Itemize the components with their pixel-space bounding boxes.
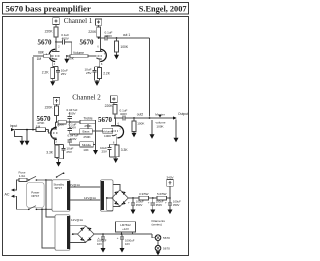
B+ connector box (ch2 stage 2) — [111, 96, 118, 103]
wire T3 secondary bottom to bridge 2 — [70, 241, 86, 243]
svg-text:3.3K: 3.3K — [46, 151, 54, 155]
svg-text:400V: 400V — [120, 112, 128, 116]
diode D3 (BR1 bottom-left) — [114, 201, 117, 205]
svg-text:out2: out2 — [137, 112, 144, 116]
volume pot wire (channel 1) — [67, 55, 95, 57]
ground (R11) — [132, 133, 137, 138]
ground (tone stack) — [93, 150, 98, 155]
potentiometer Volume 50K body — [70, 55, 88, 58]
triode V1a envelope arc — [49, 49, 55, 61]
node filter cap 3 / B+ takeoff — [169, 197, 171, 199]
title bar frame — [3, 3, 189, 15]
node mains to heater transformer (bottom) — [41, 208, 43, 210]
transformer T2 body — [101, 180, 114, 211]
ground (V2a cathode) — [56, 162, 61, 167]
triode V2b envelope arc — [117, 126, 123, 138]
diode D5 (BR2 top-left) — [80, 228, 83, 232]
wire plate to tube V2a — [55, 122, 57, 129]
ground (V1b cathode) — [95, 81, 100, 86]
diode D1 (BR1 top-left) — [114, 191, 117, 195]
ground (C14) — [101, 248, 106, 253]
bridge BR1 DC- stub — [107, 197, 112, 199]
cathode ground bus V2b — [110, 157, 118, 159]
wire coupling from plate node — [56, 41, 62, 43]
transformer T3 body (heater) — [55, 215, 70, 250]
node mains to heater transformer (top) — [45, 179, 47, 181]
wire to coupling cap — [99, 37, 105, 39]
ground (volume pot ch1) — [64, 59, 69, 64]
svg-text:12V@1A: 12V@1A — [68, 183, 80, 187]
svg-text:+: + — [117, 236, 119, 240]
potentiometer Bass 250K body — [80, 129, 92, 134]
fuse F1 — [19, 178, 27, 181]
wire 12V link bottom — [70, 199, 101, 201]
ground (master pot) — [150, 134, 155, 139]
resistor R4 220K (plate load V1b) — [97, 27, 101, 37]
ground (V2b cathode) — [113, 158, 118, 163]
svg-text:5670 bass preamplifier: 5670 bass preamplifier — [6, 3, 91, 13]
switch pole 2 (power) — [29, 206, 52, 210]
capacitor C10 0.1uF 400V (coupling out2) — [123, 116, 125, 121]
wire heater to ground — [157, 250, 159, 252]
svg-text:+: + — [128, 200, 130, 204]
svg-text:12V@1A: 12V@1A — [71, 218, 83, 222]
cathode ground bus V2a — [57, 159, 64, 162]
svg-text:16V: 16V — [97, 242, 102, 246]
resistor R11 100K (mix out2) — [133, 118, 135, 121]
triode V2b grid (dashed) — [112, 130, 118, 132]
wire riser to channel 1 grid — [32, 57, 34, 130]
drawing border frame — [3, 17, 189, 256]
svg-text:25V: 25V — [66, 150, 72, 154]
wire V1b plate up — [100, 38, 102, 52]
triode V2a plate bar — [51, 128, 57, 130]
svg-text:400V: 400V — [62, 37, 70, 41]
svg-text:1M: 1M — [36, 124, 41, 128]
node filter cap 1 — [132, 197, 134, 199]
svg-text:Channel 2: Channel 2 — [72, 94, 101, 102]
capacitor C8 0.047uF 400V (mid) — [70, 139, 80, 145]
wire V1b cathode down — [99, 59, 101, 67]
svg-text:Input: Input — [10, 124, 17, 128]
heater H1 (5670 filament) — [155, 235, 161, 241]
diode D4 (BR1 bottom-right) — [123, 201, 126, 205]
svg-text:2.2K: 2.2K — [103, 71, 111, 75]
regulator U1 7812 box — [116, 222, 136, 232]
bridge BR2 DC- stub — [73, 233, 78, 235]
bridge rectifier BR2 diamond — [78, 226, 95, 242]
B+ connector box (ch2 stage 1) — [53, 98, 60, 105]
wire AC live — [14, 180, 19, 190]
svg-text:350V: 350V — [156, 203, 163, 207]
wire plate V2b to tube — [114, 118, 116, 126]
svg-text:100K: 100K — [156, 125, 164, 129]
svg-text:3.3K: 3.3K — [121, 148, 129, 152]
resistor R12 3.3K 5W (box on rail) — [139, 196, 149, 200]
ground (C12) — [150, 210, 155, 215]
node out2 100K — [133, 117, 135, 119]
triode V2a grid (dashed) — [50, 132, 57, 134]
ground (C15) — [120, 248, 125, 253]
transformer T1 body — [52, 180, 70, 211]
triode V1b envelope arc — [100, 49, 106, 61]
capacitor C11 100uF 350V — [132, 198, 134, 210]
svg-text:Middle: Middle — [82, 143, 91, 147]
wire output to ground — [175, 120, 177, 138]
transformer T1 winding bar — [67, 181, 70, 210]
ground (V1a cathode) — [50, 81, 55, 86]
wire input sleeve L — [15, 131, 22, 141]
resistor R9 220K (plate load V2b) — [113, 105, 117, 115]
wire cathode down — [52, 59, 54, 66]
B+ connector box (stage 2) — [95, 19, 101, 25]
svg-text:AC: AC — [5, 192, 10, 196]
svg-text:Channel 1: Channel 1 — [64, 17, 93, 25]
wire T3 primary bottom — [42, 209, 55, 248]
ground (1M) — [25, 141, 30, 146]
wire plate to tube — [55, 42, 57, 52]
capacitor C2 0.1uF 400V (coupling stage1) — [62, 40, 64, 45]
svg-text:100K: 100K — [137, 122, 145, 126]
capacitor C14 1000uF 16V — [102, 234, 104, 248]
switch Standby SPST lever — [57, 173, 64, 177]
node plate V1b — [98, 37, 100, 39]
svg-text:350V: 350V — [173, 203, 180, 207]
ground (C13) — [168, 210, 173, 215]
svg-text:400V: 400V — [69, 137, 76, 141]
bridge rectifier BR1 diamond — [112, 190, 129, 207]
triode V1b grid (dashed) — [95, 55, 103, 57]
capacitor C12 100uF 350V — [152, 198, 154, 210]
wire out1 — [107, 38, 150, 117]
wire heater series link — [157, 241, 159, 246]
node plate V2a — [56, 121, 58, 123]
wire AC neutral — [14, 196, 28, 209]
wire BR1 DC- down — [107, 198, 113, 210]
switch box Power DPST — [27, 183, 44, 208]
cathode bus V2b — [110, 143, 118, 145]
node input split — [32, 129, 34, 131]
capacitor C13 100uF 350V — [169, 198, 171, 210]
svg-text:Volume: Volume — [73, 51, 84, 55]
treble wiper wire — [88, 124, 103, 131]
wire cathode V2a down — [53, 138, 55, 144]
ground (heaters) — [156, 251, 161, 255]
triode V2a cathode — [52, 137, 57, 138]
capacitor C7 0.1uF 400V (bass) — [70, 122, 80, 134]
wire volume to ground — [66, 56, 68, 59]
resistor R5 100K (out1 load) — [116, 38, 118, 41]
triode V1a plate bar — [52, 51, 59, 53]
node filter cap 2 — [152, 197, 154, 199]
svg-text:+: + — [165, 200, 167, 204]
node volume top — [66, 55, 68, 57]
ground (R5) — [114, 55, 119, 60]
wire input to grid — [15, 129, 36, 131]
svg-text:Treble: Treble — [83, 116, 92, 120]
triode V1a cathode — [52, 58, 58, 59]
resistor R2 2.2K (cathode, stage 1) — [51, 68, 55, 79]
triode V1a grid (dashed) — [52, 55, 60, 57]
resistor R1 220K (plate load, stage 1) — [54, 27, 58, 37]
wire master to ground — [151, 120, 153, 134]
resistor R7 3.3K (cathode V2a) — [55, 145, 59, 158]
resistor R3 2.2K (cathode V1b) — [98, 68, 102, 79]
svg-text:10K: 10K — [83, 148, 89, 152]
capacitor C3 10uF 25V (cathode bypass V1b) — [94, 67, 96, 81]
capacitor C4 0.1uF 400V (coupling stage2) — [105, 36, 107, 41]
ground (output) — [174, 138, 179, 143]
wire B+2 down — [98, 25, 100, 27]
svg-text:220K: 220K — [45, 29, 54, 33]
svg-text:250K: 250K — [84, 124, 92, 128]
diode D6 (BR2 top-right) — [89, 228, 92, 232]
potentiometer Master volume 100K wiper — [158, 115, 161, 118]
svg-text:1M: 1M — [37, 57, 42, 61]
wire T2 secondary bottom to bridge — [113, 205, 120, 207]
B+ filter rail — [128, 197, 170, 199]
resistor R10 3.3K (cathode V2b) — [115, 145, 119, 157]
svg-text:1.6A: 1.6A — [19, 174, 26, 178]
capacitor C9 10uF 25V (cathode bypass V2b) — [109, 144, 111, 157]
cathode bus V1b — [95, 66, 100, 68]
svg-text:S.Engel, 2007: S.Engel, 2007 — [139, 4, 187, 13]
diode D7 (BR2 bottom-left) — [80, 237, 83, 241]
svg-text:220K: 220K — [45, 105, 54, 109]
svg-text:400V: 400V — [105, 34, 113, 38]
svg-text:350V: 350V — [136, 203, 143, 207]
resistor R8 100K slope (box on line) — [58, 120, 66, 124]
potentiometer Middle 10K body — [80, 142, 94, 147]
transformer T3 winding bar — [67, 216, 70, 249]
resistor R13 5.6K 5W (box on rail) — [157, 196, 167, 200]
wire B+ to plate resistor — [55, 24, 57, 27]
svg-text:5670: 5670 — [38, 39, 53, 47]
potentiometer Treble 250K body — [80, 120, 96, 124]
wire plate V2b to coupling cap — [115, 117, 123, 119]
diode D2 (BR1 top-right) — [123, 191, 126, 195]
svg-text:Output: Output — [178, 112, 188, 116]
wire 12V link top — [70, 186, 101, 188]
svg-text:2.2K: 2.2K — [42, 71, 50, 75]
output arrowhead — [173, 116, 177, 119]
wire out2 to master — [125, 117, 173, 119]
diode D8 (BR2 bottom-right) — [89, 237, 92, 241]
svg-text:5670: 5670 — [163, 247, 170, 251]
node filament cap 2 — [121, 233, 123, 235]
cathode bus — [53, 66, 58, 68]
wire B+ riser — [169, 186, 171, 198]
svg-text:(series): (series) — [152, 223, 162, 227]
svg-text:25V: 25V — [86, 71, 92, 75]
node crossing blob — [45, 208, 47, 210]
wire T2 secondary top to bridge — [113, 185, 120, 190]
svg-text:SPST: SPST — [55, 186, 63, 190]
capacitor C15 1000uF 16V — [121, 234, 123, 248]
svg-text:DPST: DPST — [31, 194, 39, 198]
transformer T2 winding bar — [101, 181, 104, 210]
svg-text:5670: 5670 — [98, 116, 113, 124]
resistor 470K grid (box on line) — [36, 128, 46, 132]
svg-text:100K: 100K — [120, 45, 129, 49]
svg-text:220K: 220K — [105, 104, 114, 108]
svg-text:340V: 340V — [166, 175, 173, 179]
ground (input sleeve) — [20, 141, 25, 146]
capacitor C1 10uF 25V (cathode bypass) — [57, 67, 59, 81]
svg-text:Bass: Bass — [83, 130, 90, 134]
wire B+ down V2b — [114, 102, 115, 104]
triode V1b plate bar — [95, 51, 102, 53]
svg-text:16V: 16V — [125, 242, 130, 246]
svg-text:3.3/5W: 3.3/5W — [139, 192, 149, 196]
node out1 — [116, 37, 118, 39]
svg-text:220K: 220K — [88, 30, 97, 34]
input jack arrow — [11, 128, 15, 131]
svg-text:400V: 400V — [68, 111, 75, 115]
capacitor C5 10uF 25V (cathode bypass V2a) — [63, 145, 65, 159]
triode V2b cathode — [112, 134, 117, 135]
svg-text:Master: Master — [155, 112, 164, 116]
capacitor C6 0.047uF 400V (treble) — [69, 112, 71, 122]
wire to heaters — [152, 234, 155, 238]
wire V2b cathode down — [115, 136, 117, 144]
svg-text:400V: 400V — [69, 126, 76, 130]
svg-text:250K: 250K — [83, 135, 91, 139]
node tone A — [69, 121, 71, 123]
svg-text:+: + — [148, 200, 150, 204]
wire T3 secondary top to bridge 2 — [70, 225, 86, 227]
filament DC rail — [94, 233, 152, 235]
B+ connector box (340V) — [167, 180, 174, 187]
tone stack main line — [57, 121, 96, 123]
wire 470K to grid jog — [46, 130, 51, 133]
B+ connector box (stage 1) — [53, 18, 60, 25]
svg-text:5670: 5670 — [163, 236, 170, 240]
potentiometer Volume 100K body (ch2) — [103, 128, 113, 133]
svg-text:5670: 5670 — [80, 39, 95, 47]
triode V2a envelope arc — [51, 127, 57, 139]
node master mix — [149, 117, 151, 119]
switch pole 1 (power) — [29, 176, 46, 180]
triode V1b cathode — [96, 58, 101, 59]
heater H2 (5670 filament) — [155, 245, 161, 251]
svg-text:25V: 25V — [61, 72, 67, 76]
triode V2b plate bar — [111, 125, 117, 127]
tone right rail — [95, 122, 97, 150]
svg-text:50K: 50K — [68, 57, 74, 61]
wire 1M leg — [26, 130, 28, 141]
svg-text:out 1: out 1 — [123, 33, 130, 37]
cathode ground bus — [53, 80, 58, 81]
wire B+ down — [56, 104, 58, 106]
node filament cap 1 — [102, 233, 104, 235]
svg-text:Volume: Volume — [102, 129, 113, 133]
svg-text:12V@1A: 12V@1A — [84, 196, 96, 200]
wire volume wiper to grid — [112, 130, 113, 132]
node plate V1a — [55, 41, 57, 43]
svg-text:25V: 25V — [101, 150, 107, 154]
resistor R6 220K (plate load V2a) — [55, 106, 59, 116]
svg-text:+12V: +12V — [122, 227, 129, 231]
wire T3 primary top — [46, 180, 55, 217]
svg-text:5.6/5W: 5.6/5W — [157, 192, 167, 196]
cathode bus V2a — [54, 144, 63, 147]
grid feed wire with 68K resistor box — [33, 55, 52, 57]
ground (C11) — [131, 210, 136, 215]
node plate V2b — [114, 117, 116, 119]
AC plug prong arrows — [11, 189, 14, 192]
svg-text:100K: 100K — [104, 134, 112, 138]
